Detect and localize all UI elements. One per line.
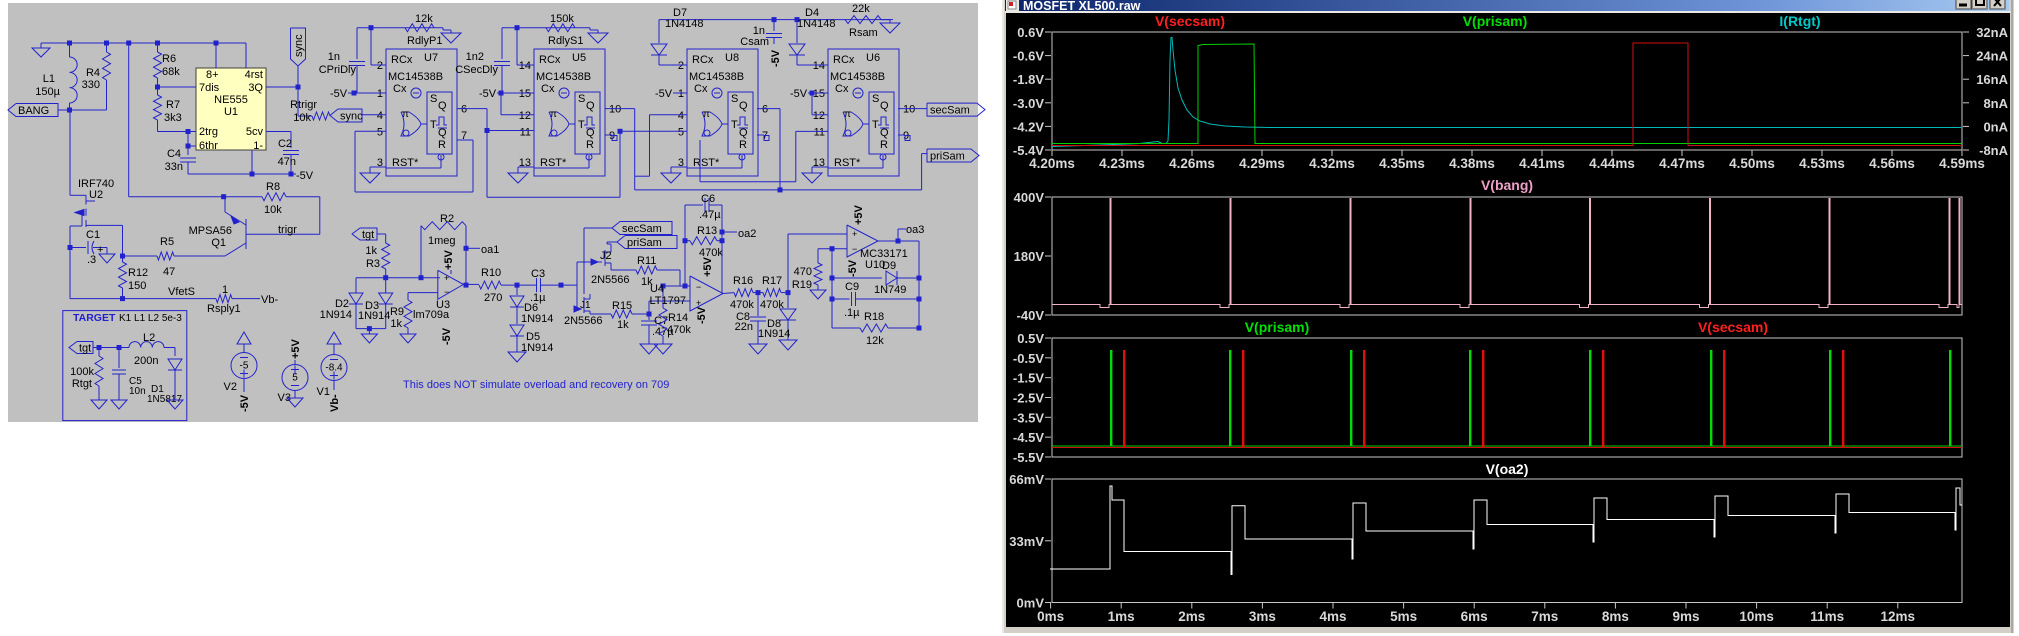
wire oa1 stub [466, 247, 480, 249]
wire U4 plus input [648, 301, 650, 314]
resistor R4 [106, 43, 108, 52]
wire pin Cx -5V U5 [497, 92, 534, 94]
svg-text:CSecDly: CSecDly [455, 64, 498, 76]
resistor R10 [479, 281, 501, 289]
svg-text:Rtrigr: Rtrigr [290, 99, 317, 111]
node junction R12 bottom [120, 296, 125, 301]
ground RdlyS1 [589, 28, 591, 30]
svg-text:oa2: oa2 [738, 228, 756, 240]
ground Rtgt [91, 400, 107, 409]
svg-text:4: 4 [678, 110, 684, 122]
svg-text:1N4148: 1N4148 [665, 18, 704, 30]
wire top rail [41, 42, 246, 44]
marker U5 pin9 [612, 136, 617, 141]
wire U4 out [723, 292, 734, 295]
ground D5 [508, 352, 526, 362]
ground Rsam [881, 19, 890, 21]
resistor R19 [817, 249, 819, 263]
svg-text:2: 2 [377, 60, 383, 72]
svg-text:U5: U5 [572, 52, 586, 64]
node junction R2 tap [419, 275, 424, 280]
svg-text:.1µ: .1µ [844, 307, 860, 319]
wire to Vb- [232, 298, 260, 300]
svg-text:RCx: RCx [391, 54, 413, 66]
svg-text:R6: R6 [162, 53, 176, 65]
capacitor C8 [757, 293, 759, 316]
svg-text:5: 5 [678, 126, 684, 138]
svg-text:S: S [872, 93, 879, 105]
svg-text:CPriDly: CPriDly [319, 64, 357, 76]
wire U8U6 link [699, 140, 701, 182]
pane3 baseline green [1052, 445, 1962, 447]
wire priSam run [635, 189, 922, 191]
node junction C9 right [917, 297, 922, 302]
wire U10 out [878, 240, 919, 242]
svg-text:+5V: +5V [290, 338, 302, 359]
svg-text:Rsam: Rsam [849, 27, 878, 39]
svg-text:RCx: RCx [833, 54, 855, 66]
wire pin Cx -5V U8 [673, 92, 687, 94]
marker U8 pin7 [764, 136, 769, 141]
svg-text:Vb-: Vb- [261, 294, 278, 306]
node junction 3Q [296, 85, 301, 90]
svg-text:11: 11 [814, 126, 825, 138]
diode D1 1N5817 [168, 359, 182, 370]
svg-text:22k: 22k [852, 3, 870, 15]
node junction 555 pin8 [214, 41, 219, 46]
svg-text:V(bang): V(bang) [1481, 177, 1533, 193]
svg-text:VfetS: VfetS [168, 286, 195, 298]
svg-text:U4: U4 [650, 283, 664, 295]
flag sync vertical [291, 28, 306, 66]
svg-text:15: 15 [813, 88, 825, 100]
svg-text:-5: -5 [240, 361, 249, 372]
diode D6 1N914 [516, 285, 518, 295]
svg-text:C3: C3 [531, 268, 545, 280]
svg-text:12k: 12k [866, 335, 884, 347]
svg-text:-4.2V: -4.2V [1013, 119, 1044, 134]
svg-text:Q: Q [438, 100, 447, 112]
svg-text:12: 12 [813, 110, 825, 122]
wire 2trg-6thr tie [187, 132, 189, 156]
node junction BANG [67, 108, 72, 113]
svg-text:12: 12 [519, 110, 531, 122]
svg-text:24nA: 24nA [1976, 49, 2008, 64]
node junction oa3 [896, 239, 901, 244]
svg-text:11: 11 [520, 126, 531, 138]
svg-text:L1: L1 [43, 73, 55, 85]
svg-text:-8.4: -8.4 [325, 363, 343, 374]
svg-text:14: 14 [813, 60, 825, 72]
svg-text:0nA: 0nA [1983, 119, 2008, 134]
svg-text:4.35ms: 4.35ms [1379, 156, 1425, 171]
svg-text:Cx: Cx [541, 83, 555, 95]
wire U5 RCx rail [502, 27, 590, 29]
ground C8 [749, 344, 767, 354]
svg-text:1meg: 1meg [428, 235, 456, 247]
node junction C3 out [559, 283, 564, 288]
capacitor C4 [180, 157, 196, 159]
svg-text:4.23ms: 4.23ms [1099, 156, 1145, 171]
resistor R12 [122, 256, 124, 262]
op-amp U10 MC33171 [847, 225, 878, 257]
svg-text:+: + [444, 273, 449, 283]
svg-text:R11: R11 [637, 255, 656, 267]
svg-text:10: 10 [903, 104, 915, 116]
svg-text:32nA: 32nA [1976, 25, 2008, 40]
svg-text:5ms: 5ms [1390, 609, 1417, 624]
svg-text:sync: sync [340, 111, 363, 123]
svg-text:V1: V1 [317, 386, 330, 398]
title bar icon [1006, 0, 1019, 11]
svg-text:MC14538B: MC14538B [830, 71, 885, 83]
waveform window frame [1002, 0, 2014, 633]
schematic background [8, 3, 978, 422]
capacitor C3 [536, 278, 538, 292]
wire pin Cx -5V U7 [348, 92, 386, 94]
node junction diodes [367, 326, 372, 331]
wire sync flag stub [297, 66, 299, 87]
resistor R15 [611, 310, 632, 318]
svg-text:4.41ms: 4.41ms [1519, 156, 1565, 171]
wire trigr right riser [319, 197, 321, 235]
svg-text:V(prisam): V(prisam) [1245, 319, 1310, 335]
svg-text:R8: R8 [266, 181, 280, 193]
svg-text:1ms: 1ms [1108, 609, 1135, 624]
wire R7 to 2trg [158, 131, 189, 133]
resistor R3 [382, 243, 390, 269]
wire -5V rail under 555 [188, 173, 296, 175]
svg-text:4.44ms: 4.44ms [1589, 156, 1635, 171]
node junction R13 left [683, 238, 688, 243]
capacitor C7 [648, 314, 650, 320]
wire 3Q out [266, 86, 298, 88]
svg-text:3Q: 3Q [248, 82, 263, 94]
voltage source V1 [327, 332, 341, 344]
svg-text:-5V: -5V [847, 259, 859, 277]
node junction minus net [830, 246, 835, 251]
svg-text:150µ: 150µ [35, 86, 60, 98]
svg-text:RST*: RST* [540, 157, 567, 169]
wire sync to pin4 [362, 114, 386, 116]
svg-text:R13: R13 [697, 225, 717, 237]
capacitor CPriDly [356, 28, 358, 59]
svg-text:33mV: 33mV [1009, 534, 1044, 549]
wire U10 minus in [818, 248, 847, 250]
svg-text:+: + [852, 229, 857, 239]
svg-text:5: 5 [377, 126, 383, 138]
TARGET subcircuit box [63, 311, 187, 421]
svg-text:1k: 1k [390, 318, 402, 330]
svg-text:1N4148: 1N4148 [797, 18, 836, 30]
svg-text:priSam: priSam [627, 237, 662, 249]
wire U7 pin5 [355, 130, 386, 132]
node junction R3 bottom [383, 275, 388, 280]
wire pin8 stub [215, 43, 217, 68]
wire Q1 base [246, 233, 320, 235]
svg-text:-5V: -5V [655, 88, 673, 100]
svg-text:Q: Q [586, 127, 595, 139]
svg-text:1N914: 1N914 [320, 309, 352, 321]
wire U7 pin2 [370, 28, 372, 65]
svg-text:RST*: RST* [693, 157, 720, 169]
ground C7 [640, 344, 658, 354]
svg-text:lm709a: lm709a [413, 309, 450, 321]
wire 5cv to C2 [266, 131, 291, 133]
wire pin4 stub [245, 43, 247, 68]
wire U5 Qb [605, 134, 612, 136]
svg-text:Q: Q [438, 127, 447, 139]
svg-text:U7: U7 [424, 52, 438, 64]
svg-text:4ms: 4ms [1319, 609, 1346, 624]
wire J gates riser [576, 285, 578, 309]
svg-text:-3.0V: -3.0V [1013, 96, 1044, 111]
pane3 box [1052, 338, 1962, 457]
svg-text:RST*: RST* [392, 157, 419, 169]
node junction R18 right [917, 326, 922, 331]
svg-text:5cv: 5cv [246, 126, 264, 138]
wire U5 pin14 [516, 28, 518, 65]
svg-text:470k: 470k [699, 247, 723, 259]
svg-text:C1: C1 [86, 229, 100, 241]
svg-text:470k: 470k [730, 299, 754, 311]
svg-text:4.32ms: 4.32ms [1309, 156, 1355, 171]
wire C3 right [541, 284, 578, 286]
svg-text:R18: R18 [864, 311, 884, 323]
svg-text:J2: J2 [600, 250, 612, 262]
wire U5 pin11 [487, 130, 534, 132]
resistor Rsam 22k [845, 16, 881, 24]
flag tgt in target [69, 342, 93, 354]
svg-text:15: 15 [519, 88, 531, 100]
svg-text:R9: R9 [390, 306, 404, 318]
svg-text:+5V: +5V [443, 249, 455, 270]
inductor L1 [69, 43, 71, 57]
svg-text:7dis: 7dis [199, 82, 220, 94]
ic U7 MC14538B [386, 49, 457, 176]
svg-text:RdlyP1: RdlyP1 [407, 35, 442, 47]
svg-text:Q: Q [880, 100, 889, 112]
resistor Rsply1 [216, 295, 232, 303]
svg-text:8ms: 8ms [1602, 609, 1629, 624]
node junction oa2 tap [720, 230, 725, 235]
node junction R15-C7 [647, 312, 652, 317]
svg-text:R16: R16 [733, 275, 753, 287]
wire U7 Q out [457, 108, 487, 110]
svg-text:47n: 47n [278, 156, 296, 168]
svg-text:.47µ: .47µ [699, 209, 721, 221]
svg-text:1n2: 1n2 [466, 51, 484, 63]
svg-text:+: + [696, 298, 701, 308]
svg-text:-5V: -5V [239, 394, 251, 412]
wire U7 RCx rail [357, 27, 443, 29]
capacitor Csam [773, 20, 775, 31]
transistor Q1 MPSA56 [245, 219, 247, 249]
pane2 trace Vbang [1052, 199, 1962, 308]
svg-text:priSam: priSam [930, 151, 965, 163]
node junction U7 pin2 riser [369, 25, 374, 30]
svg-text:66mV: 66mV [1009, 472, 1044, 487]
wire U3 out [463, 283, 479, 285]
wire noninv input net [356, 277, 440, 279]
svg-text:R14: R14 [668, 312, 688, 324]
svg-text:3k3: 3k3 [164, 112, 182, 124]
svg-text:Q: Q [586, 100, 595, 112]
svg-text:11ms: 11ms [1810, 609, 1844, 624]
node junction C5 top [117, 345, 122, 350]
svg-text:π: π [703, 109, 710, 120]
svg-text:470: 470 [794, 266, 812, 278]
svg-text:π: π [550, 109, 557, 120]
svg-text:4.47ms: 4.47ms [1659, 156, 1705, 171]
wire VfetS rail [70, 298, 216, 300]
svg-text:NE555: NE555 [214, 94, 248, 106]
svg-text:4.26ms: 4.26ms [1169, 156, 1215, 171]
svg-text:10: 10 [609, 104, 621, 116]
resistor R17 [763, 289, 781, 297]
resistor Rtrigr [298, 115, 312, 117]
svg-text:R: R [438, 139, 446, 151]
wire J1 source to R15 [590, 313, 611, 315]
svg-text:R4: R4 [86, 67, 100, 79]
wire priSam flag stub [607, 241, 617, 243]
ground C1 [106, 248, 108, 255]
wire R bubble U7 [440, 155, 442, 168]
ground RST U8 [671, 166, 687, 168]
svg-text:U2: U2 [89, 189, 103, 201]
resistor RdlyS1 150k [546, 24, 575, 32]
pane1 x axis labels [1051, 150, 1053, 156]
svg-text:L2: L2 [143, 332, 155, 344]
resistor R8 [262, 193, 286, 201]
svg-text:2N5566: 2N5566 [591, 274, 630, 286]
svg-text:14: 14 [519, 60, 531, 72]
svg-text:V(oa2): V(oa2) [1486, 461, 1529, 477]
svg-text:-1.8V: -1.8V [1013, 72, 1044, 87]
node junction C1 [68, 245, 73, 250]
wire fb left riser [831, 249, 833, 328]
svg-text:1N914: 1N914 [521, 313, 553, 325]
svg-text:0.6V: 0.6V [1017, 25, 1044, 40]
svg-text:oa3: oa3 [906, 224, 924, 236]
svg-text:R7: R7 [166, 99, 180, 111]
svg-text:4.38ms: 4.38ms [1449, 156, 1495, 171]
svg-text:U6: U6 [866, 52, 880, 64]
svg-text:10k: 10k [293, 112, 311, 124]
marker U6 pin9 [905, 136, 910, 141]
resistor R5 [157, 252, 174, 260]
svg-text:33n: 33n [165, 161, 183, 173]
node junction R12 top [120, 254, 125, 259]
ground D1 [167, 400, 183, 409]
svg-text:68k: 68k [162, 66, 180, 78]
resistor R14 [661, 284, 666, 289]
op-amp U3 lm709a [438, 270, 464, 299]
svg-text:100k: 100k [70, 366, 94, 378]
svg-text:1N914: 1N914 [758, 328, 790, 340]
node junction trigr-rail riser [126, 41, 131, 46]
flag secSam output [927, 103, 985, 116]
svg-text:-5V: -5V [441, 327, 453, 345]
svg-text:1N914: 1N914 [358, 310, 390, 322]
op-amp timer U1 NE555 body [196, 68, 266, 150]
svg-text:10k: 10k [264, 204, 282, 216]
ic U5 MC14538B [534, 49, 605, 176]
svg-text:R15: R15 [612, 300, 632, 312]
svg-text:MOSFET XL500.raw: MOSFET XL500.raw [1023, 0, 1141, 13]
svg-text:-5V: -5V [770, 49, 782, 67]
svg-text:C2: C2 [278, 138, 292, 150]
svg-text:.3: .3 [87, 254, 96, 266]
ground RdlyP1 [442, 28, 444, 30]
flag secSam lower [612, 222, 672, 235]
svg-text:6thr: 6thr [199, 140, 218, 152]
svg-text:R: R [739, 139, 747, 151]
svg-text:tgt: tgt [362, 229, 374, 241]
svg-text:270: 270 [484, 292, 502, 304]
pane3 pulses [1110, 350, 1112, 446]
svg-text:6: 6 [461, 104, 467, 116]
resistor R9 [407, 293, 409, 300]
jfet J1 2N5566 [577, 308, 581, 310]
svg-text:oa1: oa1 [481, 244, 499, 256]
svg-text:12k: 12k [415, 13, 433, 25]
svg-text:sync: sync [293, 34, 305, 57]
svg-text:-0.6V: -0.6V [1013, 49, 1044, 64]
svg-text:0ms: 0ms [1037, 609, 1064, 624]
svg-text:6ms: 6ms [1461, 609, 1488, 624]
svg-text:10ms: 10ms [1739, 609, 1774, 624]
svg-text:R: R [880, 139, 888, 151]
svg-text:-3.5V: -3.5V [1013, 410, 1044, 425]
svg-text:1-: 1- [253, 140, 263, 152]
svg-text:8nA: 8nA [1983, 96, 2008, 111]
svg-text:-2.5V: -2.5V [1013, 390, 1044, 405]
resistor R18 [832, 327, 860, 329]
svg-text:-5.5V: -5.5V [1013, 450, 1044, 465]
wire trigr rail [129, 196, 262, 198]
pane4 trace Voa2 [1050, 486, 1962, 575]
node junction C2 bottom [289, 172, 294, 177]
svg-text:−: − [852, 244, 857, 254]
diode D5 1N914 [510, 325, 524, 336]
ground top-left [40, 43, 42, 48]
svg-text:U8: U8 [725, 52, 739, 64]
svg-text:-0.5V: -0.5V [1013, 351, 1044, 366]
wire U6 Qb [898, 134, 905, 136]
wire oa2 stub [722, 231, 737, 233]
ground RST U7 [370, 166, 386, 168]
resistor Rtgt [98, 348, 100, 357]
svg-text:RdlyS1: RdlyS1 [548, 35, 583, 47]
svg-text:4.56ms: 4.56ms [1869, 156, 1915, 171]
resistor R13 [690, 237, 717, 245]
svg-text:+5V: +5V [702, 256, 714, 277]
svg-text:Rsply1: Rsply1 [207, 303, 241, 315]
svg-text:tgt: tgt [79, 343, 91, 355]
pane1 trace Vsecsam red [1052, 43, 1962, 146]
svg-text:4.20ms: 4.20ms [1029, 156, 1075, 171]
svg-text:I(Rtgt): I(Rtgt) [1779, 13, 1820, 29]
op-amp U4 LT1797 [690, 276, 723, 311]
ground R14 [654, 344, 672, 354]
node junction oa1 [464, 246, 469, 251]
wire C6R13 left riser [684, 205, 686, 286]
svg-text:0.5V: 0.5V [1017, 331, 1044, 346]
svg-text:T: T [872, 119, 879, 131]
diode D4 1N4148 [796, 20, 798, 43]
svg-text:C4: C4 [167, 148, 181, 160]
